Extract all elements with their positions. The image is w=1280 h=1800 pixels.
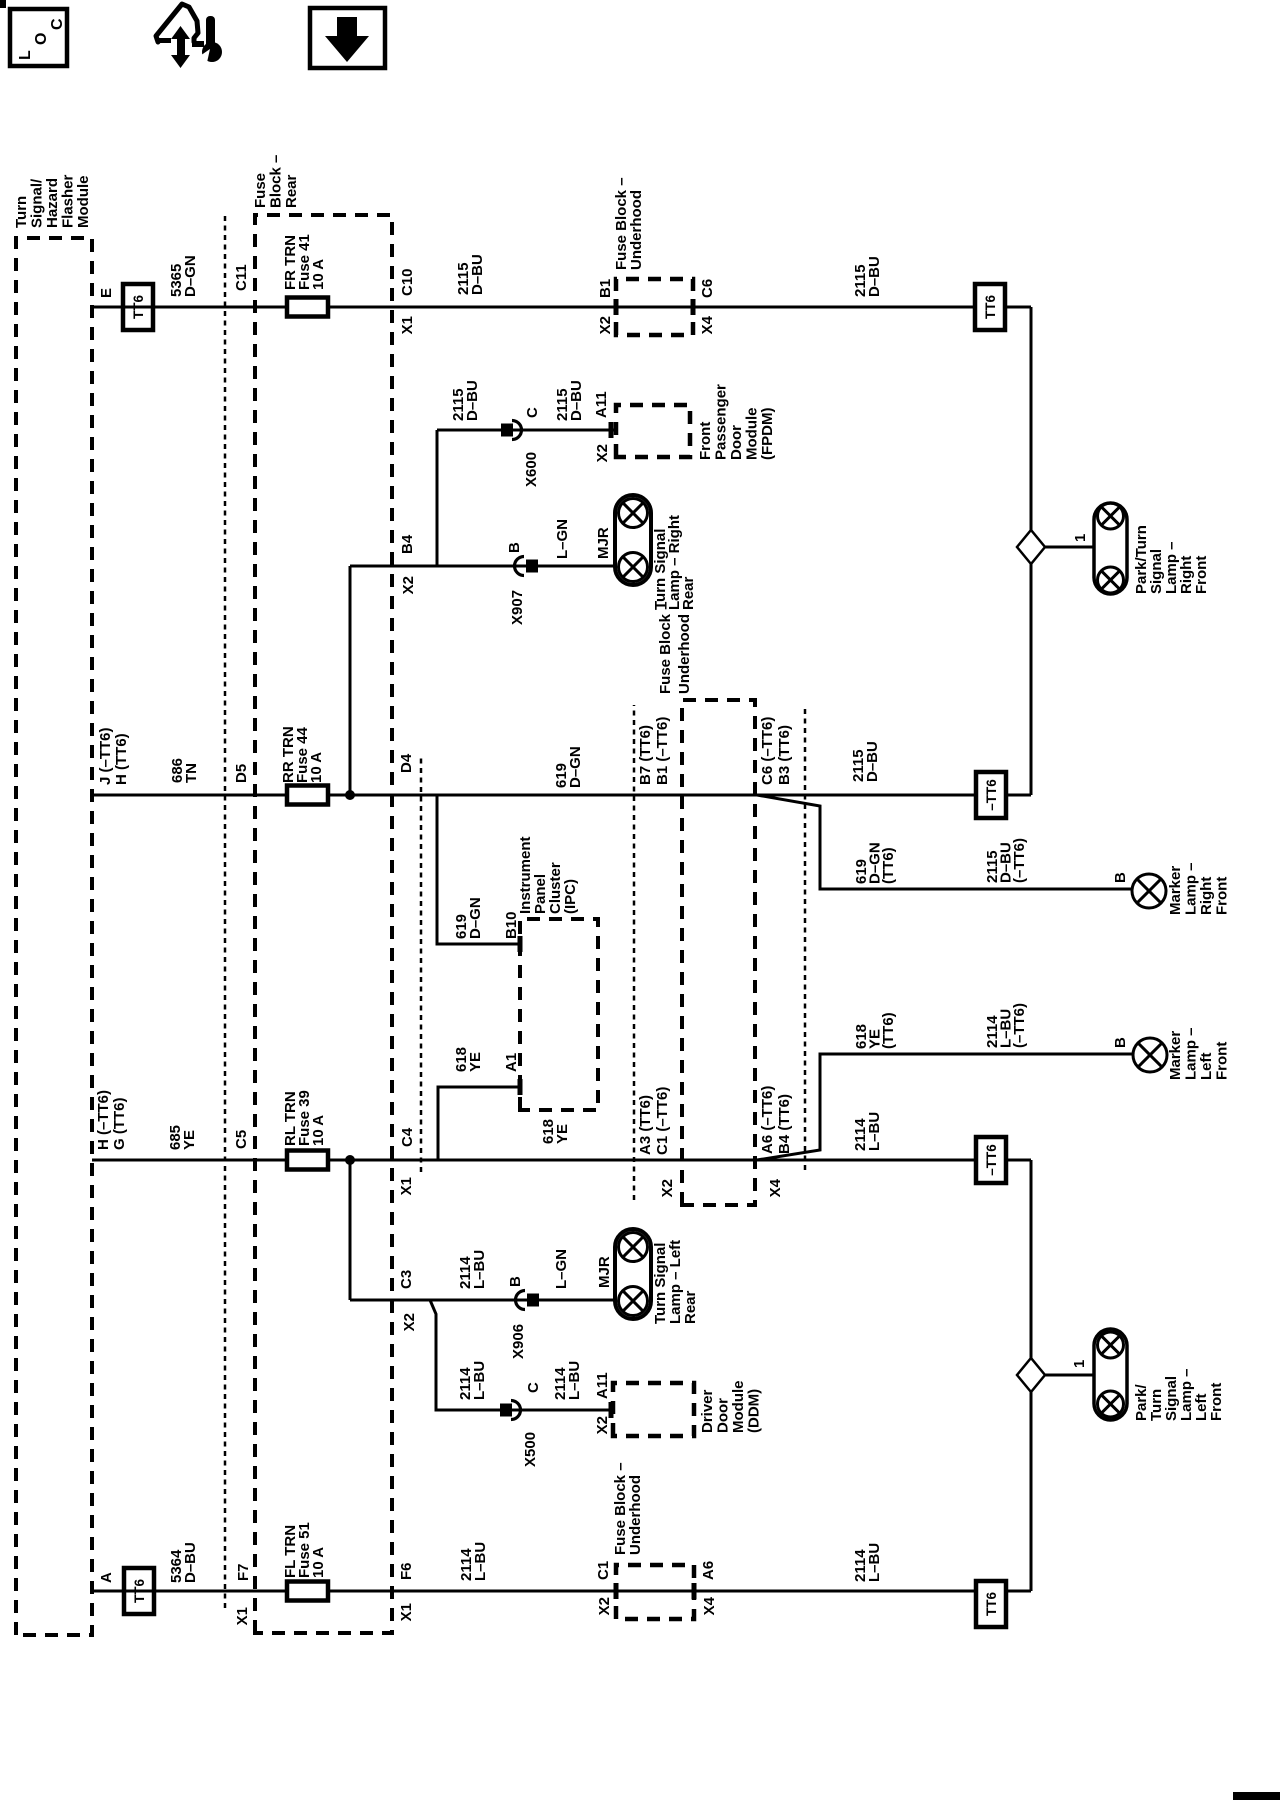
- instrument panel cluster box: [520, 919, 598, 1110]
- wire A through underhood box: [616, 1590, 694, 1593]
- svg-text:Rear: Rear: [680, 576, 697, 610]
- svg-text:D–GN: D–GN: [182, 255, 199, 297]
- svg-text:Fuse: Fuse: [252, 173, 269, 208]
- svg-text:1: 1: [1071, 1360, 1088, 1368]
- wire E through underhood box: [616, 306, 693, 309]
- connector dashed line B7/B1-A3/C1 X2: [633, 705, 636, 1200]
- svg-text:–TT6: –TT6: [984, 1144, 999, 1176]
- svg-text:X4: X4: [767, 1178, 784, 1197]
- svg-text:10 A: 10 A: [310, 1115, 327, 1146]
- svg-text:L–GN: L–GN: [553, 1249, 570, 1289]
- svg-text:X2: X2: [594, 1416, 611, 1434]
- svg-text:A11: A11: [594, 1372, 611, 1399]
- park/turn signal lamp right front: [1094, 503, 1127, 594]
- svg-text:Flasher: Flasher: [60, 174, 77, 228]
- svg-text:Right: Right: [1198, 877, 1215, 915]
- svg-text:C6 (–TT6): C6 (–TT6): [759, 717, 776, 785]
- svg-text:A: A: [98, 1572, 115, 1583]
- svg-text:B4 (TT6): B4 (TT6): [776, 1094, 793, 1154]
- svg-text:C1 (–TT6): C1 (–TT6): [654, 1087, 671, 1155]
- svg-text:A6: A6: [700, 1561, 717, 1580]
- svg-text:X2: X2: [400, 576, 417, 594]
- svg-text:B: B: [507, 1276, 524, 1287]
- splice diamond left front: [1017, 1358, 1045, 1392]
- inline connector X600: [501, 424, 513, 437]
- wire J/H underhood to -TT6 box: [755, 794, 975, 797]
- svg-text:D–BU: D–BU: [568, 380, 585, 421]
- svg-text:X1: X1: [398, 1177, 415, 1195]
- svg-text:X906: X906: [510, 1324, 527, 1359]
- svg-text:Block –: Block –: [268, 155, 285, 208]
- svg-text:L–BU: L–BU: [566, 1361, 583, 1400]
- svg-text:Front: Front: [1214, 877, 1231, 915]
- fuse FR TRN Fuse 41: [287, 298, 328, 317]
- svg-text:D–GN: D–GN: [567, 746, 584, 788]
- page corner mark top-right: [0, 0, 6, 8]
- svg-text:H (TT6): H (TT6): [113, 733, 130, 785]
- svg-text:X2: X2: [401, 1313, 418, 1331]
- svg-text:B4: B4: [399, 534, 416, 554]
- turn signal lamp left rear: [615, 1229, 651, 1319]
- svg-text:X2: X2: [597, 316, 614, 334]
- svg-text:X4: X4: [699, 315, 716, 334]
- svg-text:D–GN: D–GN: [467, 897, 484, 939]
- wire H/G -TT6 to splice bus: [1007, 1159, 1031, 1162]
- svg-text:L–BU: L–BU: [866, 1543, 883, 1582]
- svg-text:D–BU: D–BU: [864, 741, 881, 782]
- wire E underhood box to TT6: [693, 306, 975, 309]
- wire A fuse to underhood box: [328, 1590, 616, 1593]
- wire branch to IPC B10: [437, 795, 518, 944]
- svg-text:X1: X1: [398, 1603, 415, 1621]
- wire E TT6 to splice bus: [1005, 306, 1031, 309]
- svg-text:B1: B1: [597, 279, 614, 298]
- connector dashed line D4/C4: [420, 755, 423, 1172]
- module box Turn Signal/Hazard Flasher Module: [16, 238, 92, 1635]
- park/turn signal lamp left front: [1094, 1329, 1127, 1420]
- icon down-arrow button box: [310, 8, 385, 68]
- wire H/G junction to underhood box: [350, 1159, 682, 1162]
- svg-text:Module: Module: [75, 176, 92, 229]
- wire E fuse to underhood box: [328, 306, 616, 309]
- wire branch to left front marker: [757, 1054, 1134, 1160]
- wire H/G 685 YE from flasher module: [92, 1159, 287, 1162]
- svg-text:D–BU: D–BU: [469, 254, 486, 295]
- svg-text:X907: X907: [509, 590, 526, 625]
- wire branch to X600 corner: [436, 430, 439, 566]
- svg-text:TT6: TT6: [131, 295, 146, 319]
- svg-text:Module: Module: [744, 408, 761, 461]
- svg-text:D–BU: D–BU: [866, 256, 883, 297]
- inline connector X907: [515, 557, 525, 576]
- svg-text:MJR: MJR: [596, 1256, 613, 1288]
- svg-text:C: C: [49, 18, 66, 30]
- pin tick B10: [518, 936, 523, 952]
- svg-text:MJR: MJR: [595, 527, 612, 559]
- svg-text:Door: Door: [728, 425, 745, 460]
- svg-text:Passenger: Passenger: [713, 384, 730, 460]
- page corner mark bottom-left: [1233, 1792, 1280, 1800]
- svg-text:L–BU: L–BU: [472, 1542, 489, 1581]
- splice bus right front: [1030, 307, 1033, 795]
- svg-text:Underhood: Underhood: [628, 190, 645, 270]
- turn signal lamp right rear: [615, 495, 651, 585]
- svg-text:L–GN: L–GN: [554, 519, 571, 559]
- svg-text:L: L: [17, 50, 34, 60]
- inline connector X906: [516, 1291, 526, 1310]
- svg-text:Lamp –: Lamp –: [1183, 862, 1200, 915]
- -TT6 option box on wire H/G: [976, 1137, 1006, 1183]
- junction dot J/H: [345, 790, 355, 800]
- junction dot H/G: [345, 1155, 355, 1165]
- svg-text:Signal/: Signal/: [29, 178, 46, 228]
- svg-text:X500: X500: [522, 1432, 539, 1467]
- svg-text:B10: B10: [503, 911, 520, 939]
- pin tick B1: [614, 299, 619, 315]
- svg-text:A1: A1: [503, 1053, 520, 1072]
- svg-text:(IPC): (IPC): [562, 879, 579, 914]
- svg-text:Underhood: Underhood: [627, 1475, 644, 1555]
- wire branch to IPC A1: [438, 1087, 518, 1160]
- wire J/H 686 TN from flasher module: [92, 794, 287, 797]
- pin tick A6: [692, 1583, 697, 1599]
- inline connector X500: [500, 1404, 512, 1417]
- splice diamond right front: [1017, 530, 1045, 564]
- svg-text:10 A: 10 A: [310, 259, 327, 290]
- svg-text:B7 (TT6): B7 (TT6): [637, 725, 654, 785]
- svg-text:YE: YE: [554, 1124, 571, 1144]
- icon service up-down arrow: [177, 33, 185, 60]
- fuse block underhood box center: [682, 700, 755, 1205]
- svg-text:(TT6): (TT6): [880, 847, 897, 884]
- svg-text:Fuse Block –: Fuse Block –: [657, 601, 674, 694]
- svg-text:Door: Door: [715, 1398, 732, 1433]
- svg-text:X4: X4: [701, 1596, 718, 1615]
- wire branch to right front marker: [757, 795, 1133, 889]
- svg-text:Rear: Rear: [283, 174, 300, 208]
- svg-text:D4: D4: [398, 753, 415, 773]
- wire down to FPDM: [437, 429, 616, 432]
- icon down-arrow glyph: [337, 17, 357, 38]
- pin tick C6: [691, 299, 696, 315]
- svg-text:F6: F6: [398, 1562, 415, 1580]
- wire diamond to right front lamp: [1045, 546, 1094, 549]
- fuse FL TRN Fuse 51: [287, 1582, 328, 1601]
- wire branch C3 from junction: [349, 1160, 352, 1300]
- wire diamond to left front lamp: [1045, 1374, 1094, 1377]
- wire branch B4 from junction: [349, 566, 352, 795]
- wire J/H junction to underhood box: [350, 794, 682, 797]
- svg-text:Front: Front: [697, 422, 714, 460]
- svg-text:(TT6): (TT6): [880, 1012, 897, 1049]
- wire H/G fuse to junction: [328, 1159, 350, 1162]
- svg-text:TT6: TT6: [984, 1592, 999, 1616]
- svg-text:(–TT6): (–TT6): [1011, 838, 1028, 883]
- pin tick A11 FPDM: [609, 422, 614, 438]
- svg-text:B: B: [506, 542, 523, 553]
- svg-text:(FPDM): (FPDM): [759, 408, 776, 461]
- svg-text:A3 (TT6): A3 (TT6): [637, 1095, 654, 1155]
- svg-text:A6 (–TT6): A6 (–TT6): [759, 1086, 776, 1154]
- TT6 option box lower on wire E: [975, 284, 1005, 330]
- front passenger door module box: [616, 405, 690, 457]
- TT6 option box on wire A: [124, 1568, 154, 1614]
- fuse RL TRN Fuse 39: [287, 1151, 328, 1170]
- wire J/H fuse to junction: [328, 794, 350, 797]
- svg-text:Lamp –: Lamp –: [1183, 1027, 1200, 1080]
- svg-text:Turn: Turn: [13, 196, 30, 228]
- svg-text:C: C: [524, 407, 541, 418]
- svg-text:X2: X2: [659, 1179, 676, 1197]
- svg-text:Left: Left: [1198, 1053, 1215, 1081]
- svg-text:Front: Front: [1193, 556, 1210, 594]
- svg-text:C1: C1: [595, 1561, 612, 1580]
- svg-text:YE: YE: [467, 1052, 484, 1072]
- wire J/H -TT6 to splice bus: [1007, 794, 1031, 797]
- svg-text:(–TT6): (–TT6): [1011, 1003, 1028, 1048]
- wire branch to DDM: [430, 1300, 611, 1410]
- -TT6 option box on wire J/H: [976, 772, 1006, 818]
- svg-text:Underhood: Underhood: [676, 614, 693, 694]
- svg-text:G (TT6): G (TT6): [111, 1098, 128, 1151]
- svg-text:10 A: 10 A: [308, 752, 325, 783]
- svg-text:C6: C6: [699, 279, 716, 298]
- svg-text:C11: C11: [233, 264, 250, 291]
- svg-text:YE: YE: [181, 1130, 198, 1150]
- svg-text:C3: C3: [398, 1270, 415, 1289]
- pin tick A1: [518, 1079, 523, 1095]
- TT6 option box lower on wire A: [976, 1581, 1006, 1627]
- svg-text:TN: TN: [183, 763, 200, 783]
- svg-text:Rear: Rear: [682, 1290, 699, 1324]
- splice bus left front: [1030, 1160, 1033, 1591]
- svg-text:X2: X2: [594, 444, 611, 462]
- svg-text:X600: X600: [523, 452, 540, 487]
- svg-text:(DDM): (DDM): [746, 1389, 763, 1433]
- icon service wrench: [206, 16, 215, 50]
- marker lamp left front: [1133, 1038, 1167, 1072]
- marker lamp right front: [1132, 874, 1166, 908]
- svg-text:B3 (TT6): B3 (TT6): [776, 725, 793, 785]
- svg-text:Front: Front: [1208, 1383, 1225, 1421]
- wire A underhood box to TT6: [694, 1590, 976, 1593]
- wire H/G through underhood box: [682, 1159, 755, 1162]
- svg-text:B: B: [1112, 872, 1129, 883]
- svg-text:L–BU: L–BU: [471, 1361, 488, 1400]
- svg-text:Module: Module: [730, 1381, 747, 1434]
- svg-text:O: O: [33, 33, 50, 45]
- svg-text:TT6: TT6: [132, 1579, 147, 1603]
- svg-text:X1: X1: [399, 316, 416, 334]
- svg-text:TT6: TT6: [983, 295, 998, 319]
- svg-text:D–BU: D–BU: [182, 1542, 199, 1583]
- driver door module box: [613, 1383, 694, 1436]
- svg-text:1: 1: [1072, 534, 1089, 542]
- fuse block underhood box on wire A: [616, 1565, 694, 1619]
- svg-text:Driver: Driver: [699, 1389, 716, 1433]
- svg-text:D5: D5: [233, 764, 250, 783]
- connector line X1 of fuse block rear: [224, 215, 227, 1608]
- svg-text:X1: X1: [234, 1607, 251, 1625]
- svg-text:A11: A11: [593, 391, 610, 418]
- fuse block rear box: [255, 215, 392, 1633]
- svg-text:10 A: 10 A: [310, 1547, 327, 1578]
- wire A 5364 D-BU from flasher module: [92, 1590, 287, 1593]
- svg-text:Marker: Marker: [1167, 866, 1184, 915]
- svg-text:Front: Front: [1214, 1042, 1231, 1080]
- wire E 5365 D-GN from flasher module: [92, 306, 287, 309]
- svg-text:D–BU: D–BU: [464, 380, 481, 421]
- svg-text:F7: F7: [235, 1563, 252, 1581]
- pin tick A11 DDM: [609, 1402, 614, 1418]
- svg-text:B1 (–TT6): B1 (–TT6): [654, 717, 671, 785]
- svg-text:C5: C5: [233, 1130, 250, 1149]
- svg-text:H (–TT6): H (–TT6): [95, 1090, 112, 1150]
- svg-text:E: E: [98, 288, 115, 298]
- fuse block underhood box on wire E: [616, 279, 693, 335]
- svg-text:C: C: [525, 1382, 542, 1393]
- wire J/H through underhood box: [682, 794, 755, 797]
- svg-text:–TT6: –TT6: [984, 779, 999, 811]
- svg-text:C10: C10: [399, 268, 416, 296]
- wire H/G underhood to -TT6 box: [755, 1159, 976, 1162]
- svg-text:B: B: [1112, 1037, 1129, 1048]
- svg-text:X2: X2: [596, 1597, 613, 1615]
- svg-text:L–BU: L–BU: [866, 1112, 883, 1151]
- svg-text:L–BU: L–BU: [471, 1250, 488, 1289]
- svg-text:C4: C4: [399, 1127, 416, 1147]
- TT6 option box on wire E: [123, 284, 153, 330]
- fuse RR TRN Fuse 44: [287, 786, 328, 805]
- connector dashed line C6/B3-A6/B4 X4: [804, 707, 807, 1170]
- wire down to X907 and right rear lamp: [437, 565, 615, 568]
- wire A TT6 to splice bus: [1006, 1590, 1031, 1593]
- pin tick C1: [614, 1583, 619, 1599]
- icon service adjust outline: [156, 4, 198, 42]
- svg-text:Hazard: Hazard: [44, 178, 61, 228]
- icon LOC button box: [10, 9, 67, 66]
- svg-text:Marker: Marker: [1167, 1031, 1184, 1080]
- svg-text:J (–TT6): J (–TT6): [97, 727, 114, 785]
